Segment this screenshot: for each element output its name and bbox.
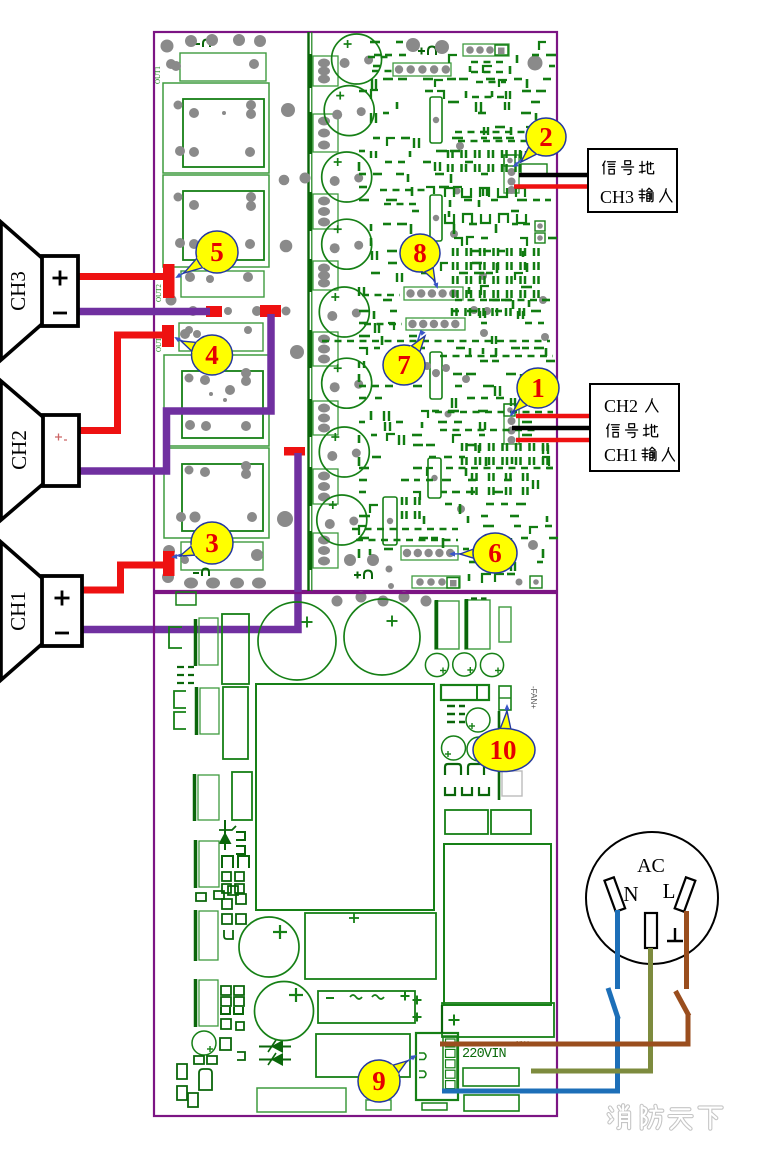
- left column rect L10: [196, 979, 219, 1027]
- heatsink block: [444, 844, 551, 1005]
- watermark text: [609, 1105, 722, 1128]
- header P5: [404, 287, 463, 300]
- filter block: [316, 1034, 410, 1077]
- connector footprint: [422, 1103, 447, 1110]
- IC U1: [430, 97, 442, 143]
- wire AC N lower (blue): [442, 1017, 618, 1091]
- silkscreen -cap mark top: [194, 40, 210, 48]
- header P4: [406, 318, 465, 330]
- callout 5: [175, 231, 238, 278]
- svg-text:9: 9: [372, 1066, 386, 1096]
- svg-text:CH1: CH1: [604, 445, 638, 465]
- wire CH1/CH2 signal ground (black): [512, 426, 590, 431]
- svg-text:N: N: [623, 882, 638, 906]
- crystal Y1: [199, 1069, 212, 1090]
- svg-text:CH2: CH2: [7, 430, 31, 470]
- filter capacitor C5: [319, 287, 369, 337]
- left column rect L2: [196, 618, 219, 666]
- callout 8: [400, 234, 440, 289]
- svg-text:2: 2: [539, 122, 553, 152]
- boxes B11: [220, 1038, 245, 1060]
- component U-pair: [221, 1007, 243, 1014]
- fan connector CN-FAN: [499, 686, 511, 710]
- diode D1: [259, 1040, 291, 1053]
- left column rect L4: [197, 687, 220, 735]
- svg-text:CH3: CH3: [600, 187, 634, 207]
- terminal strip OUT4: [181, 542, 263, 570]
- dash cluster under rectifier: [447, 706, 465, 722]
- relay K1: [163, 83, 269, 173]
- callout 7: [383, 329, 426, 385]
- svg-text:1: 1: [531, 373, 545, 403]
- callout 4: [174, 335, 232, 375]
- PCB divider line: [307, 32, 309, 591]
- snubber dashes: [471, 597, 487, 599]
- callout 1: [510, 368, 559, 417]
- svg-text:8: 8: [413, 238, 427, 268]
- svg-text:10: 10: [490, 735, 517, 765]
- relay K4: [164, 448, 269, 538]
- left column rect L5: [223, 687, 248, 759]
- small boxes cluster B7: [221, 986, 244, 1006]
- small electrolytic trio: [425, 653, 503, 677]
- svg-text:3: 3: [205, 528, 219, 558]
- svg-text:AC: AC: [637, 855, 665, 877]
- relay K2: [163, 175, 269, 267]
- capacitor CE2: [466, 708, 490, 732]
- wire CH3+ (red): [78, 273, 166, 280]
- switch on N wire: [608, 988, 618, 1019]
- terminal OUT1 (CH1+) solder blob: [163, 551, 175, 576]
- small boxes B9: [194, 1056, 217, 1064]
- transformer secondary block: [305, 913, 436, 979]
- small boxes cluster B6: [222, 894, 246, 939]
- wire CH3 signal ground (black): [519, 173, 588, 178]
- filter capacitor C4: [322, 219, 372, 269]
- callout 9: [358, 1055, 417, 1102]
- capacitor CB4: [255, 982, 314, 1041]
- svg-text:7: 7: [397, 350, 411, 380]
- wire CH2- (purple): [79, 314, 271, 471]
- input connector CN2 (CH3): [504, 155, 519, 194]
- filter capacitor C6: [322, 358, 372, 408]
- jumper block JP1: [535, 221, 545, 243]
- AC input connector 220VIN: [416, 1005, 458, 1100]
- bulk capacitor CB1: [258, 602, 336, 680]
- terminal strip OUT2: [181, 271, 264, 297]
- diode D3 (zener): [219, 820, 237, 850]
- wire AC L (brown): [684, 911, 689, 989]
- small boxes cluster B8: [221, 1019, 244, 1030]
- wire AC N (blue): [615, 910, 620, 989]
- terminal CH1- solder blob: [284, 447, 305, 456]
- transformer T1: [256, 684, 434, 910]
- header P2: [412, 576, 460, 588]
- plug prong N: [604, 877, 625, 911]
- terminal OUT2 (CH3+) solder blob: [163, 264, 175, 298]
- amplifier board PCB outline: [154, 32, 557, 591]
- output block with +: [442, 1003, 554, 1037]
- polarity mark aux: [413, 999, 422, 1001]
- svg-text:OUT2: OUT2: [155, 284, 163, 302]
- silkscreen traces texture: [322, 42, 558, 583]
- input connector CN1 (CH1/CH2): [504, 404, 519, 444]
- aux rect pair R1: [445, 810, 488, 834]
- polarity mark +cap bottom: [354, 571, 372, 580]
- svg-text:L: L: [663, 879, 676, 903]
- solder pads right section: [332, 38, 550, 607]
- driver connector strips: [310, 54, 338, 570]
- filter capacitor C1: [332, 34, 382, 84]
- bracket components B1: [174, 691, 186, 729]
- terminal OUT3 (CH2+) solder blob: [162, 325, 174, 347]
- small brackets B2: [236, 832, 245, 854]
- plug prong L: [675, 877, 696, 911]
- left column rect L9: [196, 910, 219, 961]
- svg-text:CH2: CH2: [604, 396, 638, 416]
- left column rect L1: [176, 592, 196, 605]
- rectifier long component: [441, 685, 489, 700]
- bottom rect A4: [366, 1100, 391, 1110]
- svg-text:5: 5: [210, 237, 224, 267]
- wire CH1- (purple): [82, 453, 298, 630]
- callout 10: [473, 704, 535, 772]
- label box CH3 input: [588, 149, 677, 212]
- bracket cluster B3: [222, 856, 249, 868]
- svg-text:CH1: CH1: [6, 591, 30, 631]
- IC U2: [430, 195, 442, 241]
- bracket component B0: [169, 627, 182, 648]
- IC U3: [430, 352, 442, 399]
- silkscreen -cap mark bottom: [193, 569, 209, 577]
- relay K3: [164, 355, 269, 446]
- header P8: [393, 63, 451, 76]
- wire CH3 input (red): [514, 184, 588, 189]
- filter capacitor C2: [324, 86, 374, 136]
- snubber rect A: [435, 600, 459, 649]
- svg-text:CH3: CH3: [6, 271, 30, 311]
- snubber rect B: [465, 599, 490, 649]
- terminal CH3- solder blob: [206, 306, 222, 317]
- IC U4: [383, 497, 397, 545]
- capacitor CE5: [192, 1031, 216, 1055]
- wire CH3- (purple): [78, 308, 210, 316]
- speaker CH2: [1, 381, 79, 520]
- IC U5: [428, 458, 441, 498]
- callout 3: [171, 522, 233, 564]
- bottom rect A3: [257, 1088, 346, 1112]
- callout 6: [449, 533, 517, 573]
- label box CH1/CH2 input: [590, 384, 679, 471]
- CH2 polarity mark: [55, 434, 67, 441]
- header P3: [401, 546, 458, 560]
- bulk capacitor CB2: [344, 599, 420, 675]
- aux block A2: [464, 1095, 519, 1111]
- plug prong earth: [645, 913, 657, 948]
- component U-row: [445, 787, 489, 795]
- aux rect pair R2: [491, 810, 531, 834]
- svg-text:4: 4: [205, 340, 219, 370]
- capacitor CE3: [442, 736, 466, 760]
- terminal CH2- solder blob: [260, 305, 281, 317]
- diode D2: [259, 1053, 291, 1066]
- bridge rectifier block: [318, 991, 415, 1023]
- filter capacitor C7: [319, 427, 369, 477]
- speaker CH1: [1, 542, 82, 680]
- component R-block: [521, 164, 547, 174]
- header P9: [463, 44, 509, 56]
- mounting outline: [502, 771, 522, 796]
- wire AC L lower (brown): [440, 1014, 688, 1044]
- svg-text:6: 6: [488, 538, 502, 568]
- capacitor CE1: [499, 607, 511, 642]
- wire CH1 input (red): [516, 438, 590, 443]
- terminal strip header: [179, 323, 263, 351]
- left column rect L6: [232, 772, 252, 820]
- dash cluster D1: [177, 667, 194, 683]
- capacitor CE4: [467, 737, 491, 761]
- left column rect L7: [195, 774, 220, 821]
- speaker CH3: [1, 222, 78, 360]
- power supply board PCB outline: [154, 593, 557, 1116]
- trace to heatsink: [498, 711, 501, 800]
- inductor arches: [445, 764, 461, 775]
- small boxes row B5: [196, 886, 238, 901]
- callout 2: [512, 118, 566, 167]
- output header J1: [180, 53, 266, 81]
- jumper block JP2: [530, 576, 542, 588]
- switch on L wire: [676, 991, 690, 1016]
- AC plug body: [586, 832, 718, 964]
- aux block A1: [463, 1068, 519, 1086]
- wire AC earth (olive): [531, 948, 651, 1071]
- polarity mark +cap top: [418, 47, 436, 56]
- filter capacitor C8: [317, 495, 367, 545]
- left column rect L8: [196, 840, 220, 888]
- wire CH1+ (red): [82, 565, 165, 590]
- wire CH2 input (red): [516, 414, 590, 419]
- earth symbol: [667, 928, 683, 941]
- left column rect L3: [222, 614, 249, 684]
- small boxes cluster B4: [222, 872, 244, 893]
- filter capacitor C3: [322, 152, 372, 202]
- wire CH2+ (red): [79, 335, 164, 431]
- left edge boxes B10: [177, 1064, 198, 1107]
- capacitor CB3: [239, 917, 299, 977]
- svg-text:-FAN+: -FAN+: [529, 686, 538, 709]
- svg-text:OUT1: OUT1: [154, 66, 162, 84]
- solder pads left section: [161, 34, 311, 589]
- svg-text:220VIN: 220VIN: [462, 1047, 507, 1062]
